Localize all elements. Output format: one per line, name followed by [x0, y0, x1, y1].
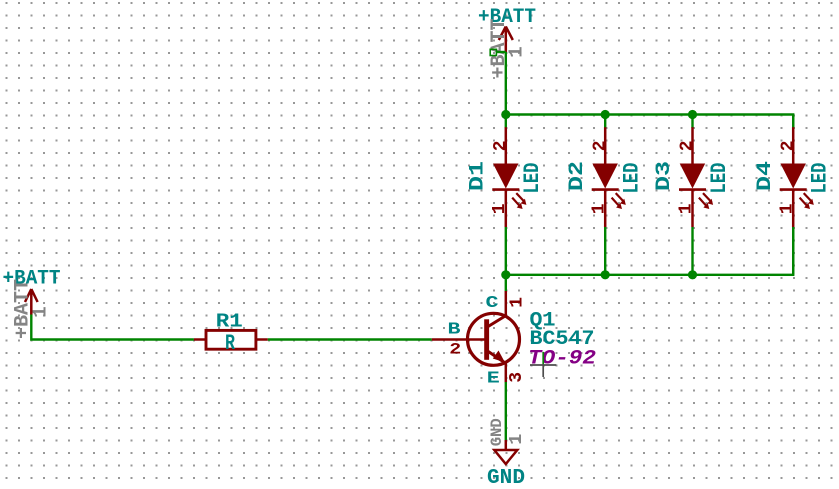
- D3 emission arrow 1: [703, 193, 713, 205]
- D3 pin 2 (anode): [691, 127, 694, 164]
- D3 emission arrow 2: [699, 198, 709, 209]
- svg-text:R1: R1: [216, 311, 243, 333]
- D2 triangle body: [592, 164, 618, 189]
- svg-text:2: 2: [778, 140, 798, 151]
- D4 cathode bar: [780, 188, 807, 191]
- svg-text:1: 1: [490, 203, 510, 214]
- LED D4 branch: [754, 115, 833, 275]
- svg-text:1: 1: [589, 203, 609, 214]
- svg-text:1: 1: [507, 297, 527, 308]
- svg-text:2: 2: [449, 341, 461, 359]
- GND pin line: [505, 440, 508, 451]
- field anchor cross (XOR style): [530, 352, 556, 377]
- GND triangle: [494, 450, 517, 464]
- wire bottom bus to Q1 collector: [505, 275, 507, 291]
- D1 pin 2 (anode): [505, 127, 508, 164]
- +BATT arrow graphic: [499, 27, 513, 53]
- wire stub bus to D1 anode: [505, 115, 507, 129]
- svg-text:D1: D1: [467, 161, 490, 191]
- svg-text:1: 1: [29, 306, 51, 317]
- svg-text:LED: LED: [808, 163, 833, 194]
- D2 emission arrow 2: [612, 198, 622, 209]
- junction (top, D2): [601, 110, 610, 119]
- svg-text:LED: LED: [620, 163, 645, 194]
- svg-text:TO-92: TO-92: [528, 348, 596, 371]
- D4 pin 2 (anode): [792, 127, 795, 164]
- +BATT arrow graphic (left): [25, 289, 38, 315]
- D1 triangle body: [493, 164, 519, 189]
- junction (bottom, D1): [501, 270, 510, 279]
- wire stub bus to D2 anode: [604, 115, 606, 129]
- svg-text:LED: LED: [520, 163, 545, 194]
- D1 emission arrow 1: [516, 193, 526, 205]
- D3 pin 1 (cathode): [691, 190, 694, 227]
- wire bottom bus: [506, 227, 793, 275]
- D2 cathode bar: [592, 188, 619, 191]
- svg-text:1: 1: [505, 46, 527, 57]
- Q1 base bar: [484, 319, 489, 360]
- D1 pin 1 (cathode): [505, 190, 508, 227]
- D4 emission arrow 2: [800, 198, 810, 209]
- D4 triangle body: [780, 164, 806, 189]
- wire +BATT to top bus: [505, 52, 507, 115]
- Q1 collector diagonal: [488, 316, 506, 327]
- junction (bottom, D3): [688, 270, 697, 279]
- LED D2 branch: [566, 115, 645, 275]
- wire D1 cathode to bottom bus: [505, 227, 507, 275]
- LED D3 branch: [653, 115, 732, 275]
- resistor R1: [194, 311, 268, 357]
- Q1 emitter diagonal: [488, 351, 506, 363]
- pin 2 of R1: [257, 338, 268, 341]
- wire left +BATT to resistor: [31, 315, 194, 340]
- Q1 emitter arrow: [493, 351, 505, 363]
- D2 pin 1 (cathode): [604, 190, 607, 227]
- junction (bottom, D2): [601, 270, 610, 279]
- svg-text:LED: LED: [707, 163, 732, 194]
- power symbol GND: [487, 418, 527, 489]
- Q1 emitter pin: [505, 363, 508, 382]
- power symbol +BATT (left): [3, 268, 61, 340]
- Q1 base pin: [432, 338, 485, 341]
- svg-text:3: 3: [507, 372, 527, 383]
- D1 cathode bar: [492, 188, 519, 191]
- wire D2 cathode to bottom bus: [604, 227, 606, 275]
- wire D3 cathode to bottom bus: [691, 227, 693, 275]
- wire top bus: [506, 115, 793, 129]
- power symbol +BATT (top): [478, 6, 536, 79]
- D4 emission arrow 1: [804, 193, 814, 205]
- junction (top, D1): [501, 110, 510, 119]
- D3 cathode bar: [679, 188, 706, 191]
- pin 1 of R1: [194, 338, 207, 341]
- D2 pin 2 (anode): [604, 127, 607, 164]
- svg-text:GND: GND: [488, 418, 506, 446]
- svg-text:2: 2: [491, 140, 511, 151]
- D2 emission arrow 1: [616, 193, 626, 205]
- junction (top, D3): [688, 110, 697, 119]
- svg-text:E: E: [487, 369, 500, 388]
- transistor Q1: [432, 291, 596, 388]
- svg-text:C: C: [486, 294, 499, 313]
- svg-text:1: 1: [777, 203, 797, 214]
- wire stub bus to D3 anode: [691, 115, 693, 129]
- R1 body: [206, 330, 256, 349]
- svg-text:1: 1: [506, 434, 527, 445]
- wire D4 cathode to bottom bus: [792, 227, 794, 275]
- svg-text:GND: GND: [487, 467, 525, 489]
- Q1 collector pin: [505, 291, 508, 316]
- svg-text:B: B: [448, 320, 461, 339]
- svg-text:1: 1: [677, 203, 697, 214]
- svg-text:2: 2: [678, 140, 698, 151]
- svg-text:D4: D4: [754, 161, 777, 191]
- svg-text:D3: D3: [653, 161, 676, 191]
- svg-text:R: R: [225, 331, 236, 356]
- LED D1 branch: [467, 115, 546, 275]
- D3 triangle body: [680, 164, 706, 189]
- Q1 body circle: [468, 313, 520, 365]
- svg-text:D2: D2: [566, 161, 589, 191]
- wire R1 to Q1 base: [268, 338, 432, 340]
- wire Q1 emitter to GND: [505, 382, 507, 440]
- wire stub bus to D4 anode: [792, 115, 794, 129]
- wire stub with unconnected end square: [490, 49, 506, 55]
- D1 emission arrow 2: [512, 198, 522, 209]
- svg-text:2: 2: [590, 140, 610, 151]
- D4 pin 1 (cathode): [792, 190, 795, 227]
